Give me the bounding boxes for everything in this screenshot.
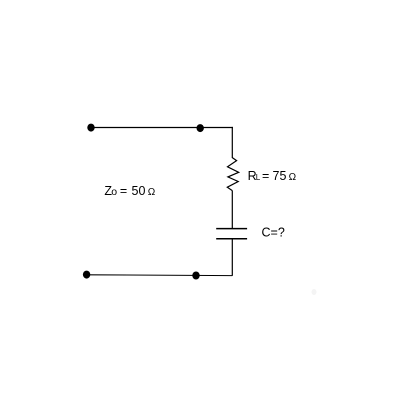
svg-text:RL=75Ω: RL=75Ω	[248, 169, 297, 183]
svg-text:Zo=50Ω: Zo=50Ω	[104, 184, 155, 198]
svg-text:C=?: C=?	[262, 226, 285, 240]
